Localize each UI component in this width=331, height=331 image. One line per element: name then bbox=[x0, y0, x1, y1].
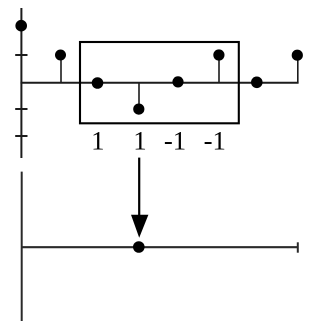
lower horizontal axis bbox=[21, 246, 298, 248]
dot sample n=4 value 0 bbox=[172, 76, 183, 87]
arrow shaft bbox=[138, 158, 140, 218]
result dot bbox=[133, 241, 145, 253]
svg-text:-1: -1 bbox=[204, 126, 226, 156]
dot sample n=3 value -1 bbox=[133, 104, 144, 115]
lower axis end tick bbox=[297, 242, 299, 252]
arrow head bbox=[131, 215, 148, 238]
upper horizontal axis bbox=[20, 82, 298, 84]
stem sample n=3 bbox=[138, 83, 140, 109]
upper vertical axis bbox=[20, 8, 22, 158]
lower vertical axis bbox=[21, 172, 23, 321]
stem sample n=1 bbox=[60, 55, 62, 82]
svg-text:-1: -1 bbox=[164, 126, 186, 156]
svg-text:1: 1 bbox=[133, 126, 146, 156]
dot sample n=5 value 1 bbox=[213, 49, 224, 60]
dot sample n=6 value 0 bbox=[251, 77, 263, 89]
dot sample n=2 value 0 bbox=[92, 77, 104, 89]
axis tick y=+1 bbox=[15, 54, 27, 56]
dot sample n=7 value 1 bbox=[292, 50, 303, 61]
correlation window rectangle bbox=[80, 42, 239, 123]
svg-text:1: 1 bbox=[91, 126, 104, 156]
axis tick y=-1 bbox=[15, 108, 27, 110]
axis tick y=-2 bbox=[15, 135, 27, 137]
dot sample n=0 value 2 bbox=[15, 20, 27, 32]
stem sample n=7 bbox=[297, 55, 299, 82]
stem sample n=5 bbox=[218, 55, 220, 83]
dot sample n=1 value 1 bbox=[55, 50, 66, 61]
